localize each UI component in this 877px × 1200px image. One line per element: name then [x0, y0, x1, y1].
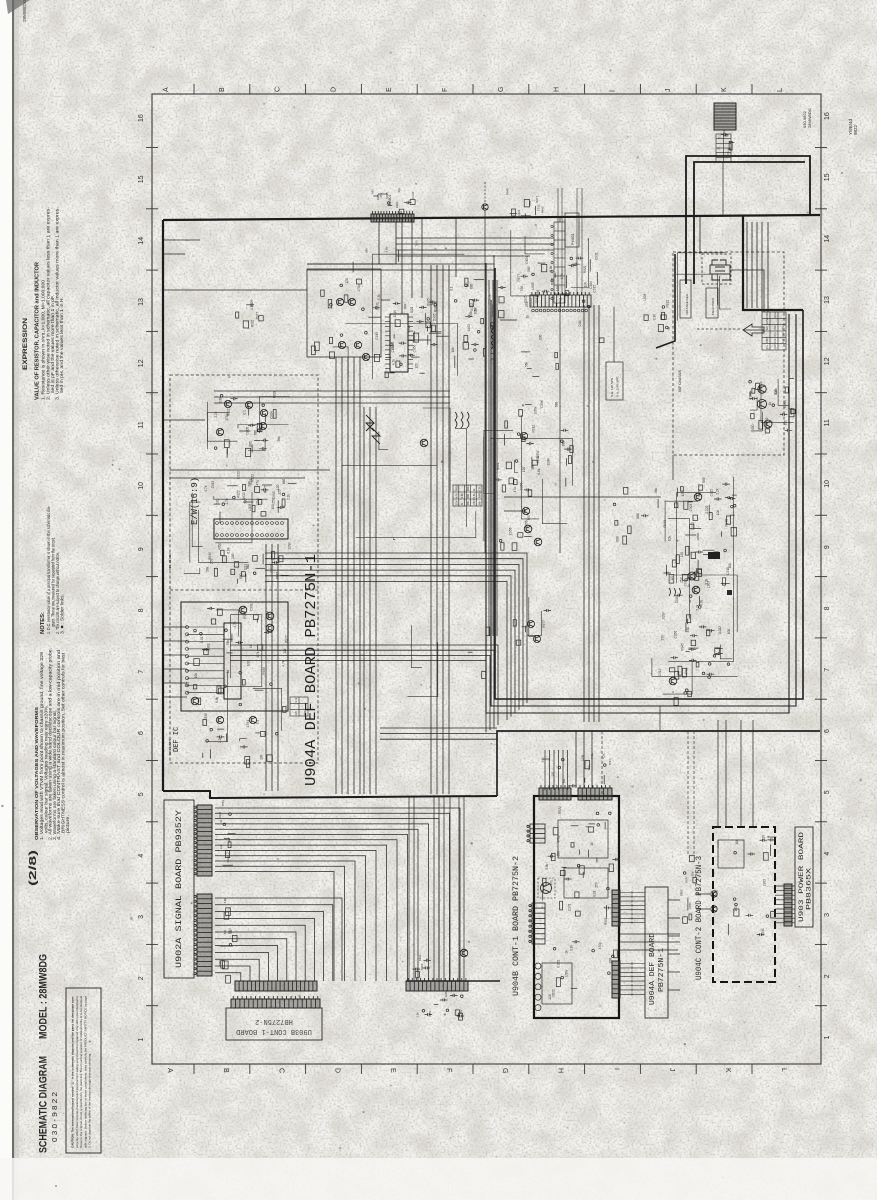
svg-text:R922: R922	[250, 319, 254, 327]
wire S.G. box up	[613, 307, 615, 362]
wires CONT-2 to POWER board	[775, 886, 795, 923]
sub-circuit box vertical drive	[307, 269, 381, 357]
coil group m	[669, 588, 681, 596]
U904A DEF board label box text	[649, 932, 666, 1005]
svg-text:6.8k: 6.8k	[227, 547, 231, 553]
transistor Q451	[694, 493, 702, 501]
svg-text:56k: 56k	[562, 778, 566, 783]
labels above CONT-1 connector	[540, 753, 612, 788]
DEF IC inner IC body	[224, 623, 241, 699]
svg-text:4.7k: 4.7k	[294, 697, 298, 703]
drops from top edge to IC901 area	[402, 218, 456, 314]
signal name label columns between boards	[680, 855, 697, 923]
cluster mid nested-bus area	[513, 609, 551, 645]
svg-text:56k: 56k	[524, 361, 528, 367]
heavy rail above connectors	[406, 980, 500, 982]
svg-text:0.01: 0.01	[244, 564, 248, 570]
horizontal bundle sync row	[214, 391, 450, 403]
E/W correction components	[214, 390, 281, 457]
svg-text:6.8k: 6.8k	[472, 493, 476, 499]
svg-text:47u: 47u	[513, 487, 517, 493]
svg-text:I: I	[609, 90, 616, 92]
svg-text:680: 680	[702, 477, 706, 483]
svg-text:100: 100	[539, 334, 543, 340]
svg-text:2: 2	[138, 976, 145, 980]
wire branch flyback top	[699, 216, 701, 254]
svg-text:25V: 25V	[781, 326, 785, 331]
transistor Q411	[420, 439, 428, 447]
svg-text:R922: R922	[583, 265, 587, 273]
svg-text:R977: R977	[542, 620, 546, 628]
svg-text:VOLTAGE REG: VOLTAGE REG	[685, 293, 689, 315]
svg-text:BRIGHTNESS control is almost i: BRIGHTNESS control is almost in maximum …	[61, 652, 66, 833]
svg-text:R912: R912	[773, 311, 777, 318]
svg-text:1: 1	[138, 1038, 145, 1042]
wire chassis box to cluster	[672, 455, 674, 480]
svg-text:0.022: 0.022	[705, 505, 709, 513]
svg-text:C904: C904	[269, 411, 273, 419]
svg-text:1/2W: 1/2W	[546, 458, 550, 465]
svg-text:120: 120	[681, 491, 685, 497]
svg-text:330: 330	[248, 481, 252, 487]
svg-text:680: 680	[562, 440, 566, 446]
svg-text:TP91: TP91	[415, 239, 419, 246]
svg-text:120: 120	[345, 278, 349, 284]
svg-text:7: 7	[138, 670, 145, 674]
svg-text:C915: C915	[524, 295, 528, 303]
svg-text:330: 330	[661, 635, 665, 641]
U903B CONT-1 board outline box	[226, 1008, 322, 1040]
boxed label FIELD PACK	[706, 288, 718, 318]
horizontal bus to right section	[380, 728, 497, 739]
svg-text:0.01: 0.01	[592, 890, 596, 896]
svg-text:330: 330	[686, 627, 690, 633]
component cluster under flyback	[643, 293, 670, 331]
svg-text:25V: 25V	[454, 500, 458, 505]
svg-text:SCHEMATIC DIAGRAM: SCHEMATIC DIAGRAM	[38, 1056, 50, 1153]
svg-text:47u: 47u	[549, 880, 553, 886]
wire CN903 down to board	[722, 162, 724, 215]
svg-text:0.01: 0.01	[410, 306, 414, 312]
sparse wires column	[468, 627, 490, 679]
svg-text:47u: 47u	[255, 480, 259, 486]
video output cluster top	[663, 477, 737, 537]
svg-text:C904: C904	[218, 811, 222, 818]
U903B CONT-1 board box text	[236, 1017, 312, 1035]
svg-text:6: 6	[138, 731, 145, 735]
wires to CONT-2 round pins	[696, 894, 710, 909]
svg-text:C931: C931	[375, 302, 379, 310]
svg-text:0.01: 0.01	[578, 320, 582, 326]
svg-text:4: 4	[138, 854, 145, 858]
dashed line right of CONT-1 wires	[601, 731, 603, 796]
CONT-1 inner box 1	[558, 820, 608, 858]
small cluster C34	[236, 301, 264, 328]
svg-text:0.022: 0.022	[529, 298, 533, 306]
svg-text:4.7k: 4.7k	[204, 485, 208, 491]
svg-text:R901: R901	[428, 1010, 432, 1017]
svg-text:R912: R912	[532, 425, 536, 433]
svg-text:A: A	[163, 87, 170, 92]
cluster below luminance	[658, 667, 714, 705]
CONT-1 top edge connector left	[539, 785, 571, 800]
boxed label VOLTAGE REG	[680, 280, 691, 318]
svg-text:0.01: 0.01	[200, 636, 204, 642]
vertical wire bundle center-right	[431, 265, 449, 794]
CONT-1 top edge connector right	[578, 785, 612, 800]
svg-text:C956: C956	[508, 527, 512, 535]
CONT-1 right edge connector lower	[612, 961, 620, 998]
svg-text:14: 14	[824, 235, 831, 243]
svg-text:13: 13	[824, 296, 831, 304]
svg-text:3. Do not degrade the safety o: 3. Do not degrade the safety of the rece…	[88, 1053, 92, 1148]
svg-text:470p: 470p	[357, 284, 361, 291]
svg-text:C904: C904	[783, 400, 787, 408]
right section inner verticals	[747, 222, 757, 308]
svg-text:28MW8DG: 28MW8DG	[807, 108, 812, 128]
svg-text:56k: 56k	[277, 436, 281, 442]
svg-text:L903: L903	[531, 282, 535, 289]
svg-text:16: 16	[138, 114, 145, 122]
svg-text:47u: 47u	[773, 338, 777, 343]
wire pair P901 to right	[396, 238, 554, 244]
svg-text:L: L	[777, 88, 784, 92]
svg-text:(2/8): (2/8)	[27, 850, 39, 886]
svg-text:D905: D905	[246, 427, 250, 435]
svg-text:47u: 47u	[773, 332, 777, 337]
sawtooth waveform symbol W2	[372, 428, 380, 444]
svg-text:B: B	[222, 1068, 229, 1073]
jumper table near DEF IC	[290, 697, 308, 716]
svg-text:4.7k: 4.7k	[587, 765, 591, 771]
transistor Q417	[249, 716, 256, 723]
svg-text:100: 100	[727, 629, 731, 635]
dashed box flyback transformer T901	[702, 254, 731, 284]
cluster under P901 box	[353, 239, 419, 272]
svg-text:G: G	[501, 1068, 508, 1073]
svg-text:10k: 10k	[668, 536, 672, 542]
transistor Q401	[336, 298, 343, 305]
svg-text:0.022: 0.022	[718, 626, 722, 634]
right section inner verticals b	[762, 222, 768, 312]
corner reference text 030-9822 top right inside frame	[802, 108, 812, 128]
svg-text:C915: C915	[272, 491, 276, 499]
U904B CONT-1 board outline	[534, 796, 619, 1018]
wire dashed signal to CONT-2	[687, 731, 689, 854]
wire box right link	[381, 299, 390, 301]
IC903 sync IC body	[214, 519, 288, 539]
svg-text:3. ■ : Solder links.: 3. ■ : Solder links.	[60, 594, 65, 634]
svg-text:6.8k: 6.8k	[774, 388, 778, 394]
svg-text:13: 13	[138, 298, 145, 306]
svg-text:120: 120	[680, 552, 684, 558]
svg-text:R945: R945	[681, 643, 685, 651]
IC903 pin circles	[216, 522, 284, 537]
margin note top right outside frame	[848, 118, 858, 135]
svg-text:R922: R922	[550, 277, 554, 285]
chroma cluster middle	[663, 536, 732, 606]
bead/ferrite trio A	[426, 322, 449, 345]
wire fan lower group signal to CONT connector	[215, 898, 342, 981]
svg-text:6.8k: 6.8k	[549, 265, 553, 271]
POWER board connector ladder	[784, 884, 792, 926]
svg-text:1/2W: 1/2W	[393, 310, 397, 317]
svg-text:1/2W: 1/2W	[288, 542, 292, 549]
svg-text:330: 330	[781, 332, 785, 337]
components above IC903	[215, 478, 296, 513]
pin circle row under connector bar	[532, 309, 588, 312]
svg-text:10k: 10k	[194, 673, 198, 679]
svg-text:14: 14	[138, 237, 145, 245]
svg-text:1/2W: 1/2W	[536, 451, 540, 458]
wire cluster link right	[500, 319, 517, 321]
svg-text:L903: L903	[643, 293, 647, 300]
svg-text:C915: C915	[684, 579, 688, 587]
svg-text:E: E	[389, 1068, 396, 1073]
svg-text:25V: 25V	[680, 576, 684, 583]
svg-text:picture.: picture.	[65, 815, 70, 833]
svg-text:PD901: PD901	[388, 195, 392, 205]
svg-text:L903: L903	[517, 209, 521, 216]
svg-text:1k: 1k	[768, 402, 772, 406]
svg-text:0.022: 0.022	[270, 564, 274, 572]
transistor Q458	[522, 507, 529, 514]
left edge zone numbers 16-1	[138, 114, 145, 1041]
svg-text:470p: 470p	[218, 543, 222, 550]
cluster below E/W label	[204, 471, 268, 523]
svg-text:1k: 1k	[590, 842, 594, 846]
components around IC901	[375, 294, 438, 378]
top edge zone letters A-L	[163, 87, 784, 92]
svg-text:S.A. 1080 5PG: S.A. 1080 5PG	[616, 376, 620, 397]
svg-text:L903: L903	[248, 504, 252, 511]
svg-text:EXPRESSION: EXPRESSION	[22, 318, 29, 370]
svg-text:R901: R901	[496, 462, 500, 470]
svg-text:7: 7	[824, 668, 831, 672]
svg-text:TP91: TP91	[608, 759, 612, 766]
board-to-board connector strip right	[406, 978, 468, 991]
svg-text:4.7k: 4.7k	[233, 621, 237, 627]
svg-text:120: 120	[294, 711, 298, 716]
svg-text:D905: D905	[675, 595, 679, 603]
svg-text:680: 680	[557, 851, 561, 857]
svg-text:1/2W: 1/2W	[662, 612, 666, 619]
svg-text:9: 9	[824, 545, 831, 549]
heavy wire pair to flyback left	[686, 156, 810, 284]
svg-text:3.3k: 3.3k	[377, 294, 381, 300]
wire CN902 down to board	[723, 130, 725, 134]
svg-text:0.1: 0.1	[186, 681, 190, 686]
DEF IC pin fan	[186, 626, 225, 695]
svg-text:470p: 470p	[225, 413, 229, 420]
transistor Q407	[245, 401, 252, 408]
svg-text:C915: C915	[592, 285, 596, 293]
svg-text:C931: C931	[472, 499, 476, 506]
svg-text:R977: R977	[535, 196, 539, 203]
transistor Q416	[216, 716, 223, 723]
svg-text:R901: R901	[206, 643, 210, 651]
svg-text:C904: C904	[689, 504, 693, 512]
test point TP901	[482, 204, 488, 210]
vertical bus risers	[584, 305, 599, 722]
svg-text:2.2k: 2.2k	[488, 294, 492, 300]
svg-text:680: 680	[282, 479, 286, 485]
boxed label PY9001	[565, 213, 579, 247]
svg-text:U904A DEF BOARD: U904A DEF BOARD	[649, 932, 657, 1005]
svg-text:1/2W: 1/2W	[534, 407, 538, 414]
svg-text:R977: R977	[255, 312, 259, 320]
svg-text:10k: 10k	[260, 754, 264, 760]
svg-text:1/2W: 1/2W	[227, 837, 231, 844]
svg-text:12: 12	[138, 359, 145, 367]
svg-text:R922: R922	[395, 201, 399, 208]
svg-text:2.2k: 2.2k	[540, 757, 544, 763]
IC901 pin stubs	[385, 317, 413, 369]
svg-text:9822: 9822	[853, 124, 858, 135]
svg-text:R945: R945	[506, 188, 510, 195]
svg-text:C904: C904	[391, 342, 395, 350]
dashed lead above TP901	[484, 182, 486, 204]
svg-text:47u: 47u	[379, 193, 383, 198]
mains plug symbol circle	[541, 883, 552, 894]
svg-text:470p: 470p	[598, 942, 602, 949]
svg-text:15: 15	[138, 175, 145, 183]
svg-text:330: 330	[527, 267, 531, 273]
wire box below P901	[379, 222, 396, 264]
SK901 pin name labels	[218, 800, 236, 866]
vertical wire drop bundle to CONT-1 connector	[409, 796, 464, 981]
svg-text:R901: R901	[227, 927, 231, 934]
svg-text:5: 5	[138, 792, 145, 796]
damper diode circle D901	[757, 399, 766, 408]
svg-text:100: 100	[271, 504, 275, 510]
CONT-1 interior lower cluster	[548, 942, 617, 1000]
DEF IC outer box	[181, 602, 288, 711]
svg-text:I: I	[612, 1068, 619, 1070]
right section border outer	[491, 300, 796, 706]
svg-text:6.8k: 6.8k	[215, 696, 219, 702]
flyback transformer T901 windings	[710, 260, 730, 280]
wire right cluster down 2	[689, 600, 691, 603]
svg-text:470p: 470p	[556, 835, 560, 842]
wire top edge branch A	[307, 263, 379, 265]
svg-text:4.7k: 4.7k	[392, 359, 396, 365]
wire from P901 down	[378, 222, 380, 264]
svg-text:L: L	[780, 1068, 787, 1072]
verticals into CONT-1 area extra	[576, 731, 592, 788]
U904C CONT-2 board outline dashed heavy	[713, 827, 775, 982]
transistor Q454	[669, 677, 677, 685]
svg-text:D905: D905	[420, 963, 424, 970]
svg-text:10: 10	[824, 480, 831, 488]
coil symbol group fff	[455, 412, 469, 428]
svg-text:0 3 0 - 9 8 2 2: 0 3 0 - 9 8 2 2	[52, 1092, 59, 1142]
wires DEF label box to CONT-2	[668, 900, 680, 990]
svg-text:56k: 56k	[226, 640, 230, 646]
svg-text:1/2W: 1/2W	[565, 970, 569, 977]
transistor Q415	[191, 697, 199, 705]
svg-text:100: 100	[734, 906, 738, 912]
wire hv line	[731, 270, 764, 312]
svg-text:120: 120	[551, 772, 555, 777]
svg-text:6.8k: 6.8k	[460, 493, 464, 499]
svg-text:680: 680	[249, 441, 253, 447]
svg-text:R977: R977	[517, 274, 521, 282]
DEF IC surrounding components	[186, 603, 289, 712]
svg-text:8: 8	[138, 608, 145, 612]
svg-text:K: K	[721, 87, 728, 92]
horizontal bus bundle lower	[265, 553, 527, 720]
svg-text:H: H	[554, 87, 561, 92]
arrow to CRT	[743, 324, 764, 336]
dashed box E/W section	[170, 375, 318, 763]
svg-text:56k: 56k	[478, 500, 482, 505]
heavy yoke return wire	[656, 254, 675, 348]
svg-text:L903: L903	[762, 879, 766, 886]
svg-text:12: 12	[824, 357, 831, 365]
U902A signal board label box	[164, 800, 194, 978]
transistor Q414	[266, 624, 274, 632]
inductor coil squiggle L902	[491, 325, 493, 349]
svg-text:PY9001: PY9001	[571, 233, 575, 245]
svg-text:J: J	[668, 1068, 675, 1072]
svg-text:0.1: 0.1	[242, 410, 246, 415]
wire right section bottom link	[659, 706, 661, 731]
main DEF board outline right heavy segment	[743, 216, 803, 310]
connector P901 pin labels	[370, 187, 415, 213]
wires into CONT-1 top connector	[545, 750, 568, 790]
right section border heavy vertical	[495, 268, 803, 699]
svg-text:C915: C915	[407, 325, 411, 333]
inverse video label dark box	[708, 552, 720, 559]
svg-text:47u: 47u	[765, 345, 769, 350]
connector CN902 hatched block	[714, 103, 736, 130]
interconnect wire mesh	[184, 230, 794, 742]
svg-text:6.8k: 6.8k	[385, 246, 389, 252]
svg-text:H: H	[557, 1068, 564, 1073]
svg-text:R945: R945	[541, 206, 545, 213]
svg-text:C915: C915	[727, 151, 730, 157]
svg-text:3.3k: 3.3k	[653, 314, 657, 320]
page fold edge line	[12, 0, 14, 1200]
component cluster right of P502	[517, 252, 599, 308]
svg-text:56k: 56k	[531, 464, 535, 470]
wire left edge mid	[163, 419, 205, 421]
wire left edge to vertical box	[163, 289, 307, 291]
svg-text:2: 2	[824, 974, 831, 978]
svg-text:C915: C915	[211, 480, 215, 488]
components below DEF IC	[203, 713, 278, 767]
svg-text:1/2W: 1/2W	[765, 317, 769, 324]
svg-text:0.022: 0.022	[556, 959, 560, 967]
svg-text:R922: R922	[236, 490, 240, 498]
connector P901 top of DEF board	[371, 211, 414, 222]
svg-text:R945: R945	[478, 492, 482, 499]
wire P502 bottom to bus	[559, 305, 561, 553]
svg-text:R977: R977	[684, 876, 688, 883]
CONT-1 inner box 3	[542, 963, 572, 1004]
svg-text:6SF CHASSIS: 6SF CHASSIS	[678, 369, 682, 392]
wires CONT-1 to CONT-2 mid	[620, 934, 680, 950]
U904A DEF board label box	[645, 887, 668, 1018]
svg-text:R945: R945	[265, 611, 269, 619]
svg-text:680: 680	[615, 536, 619, 542]
degauss posistor dashed box	[538, 878, 555, 898]
top band horizontals	[396, 250, 554, 256]
right edge zone tick marks	[815, 148, 827, 1006]
svg-text:25V: 25V	[595, 881, 599, 888]
svg-text:C956: C956	[674, 631, 678, 639]
